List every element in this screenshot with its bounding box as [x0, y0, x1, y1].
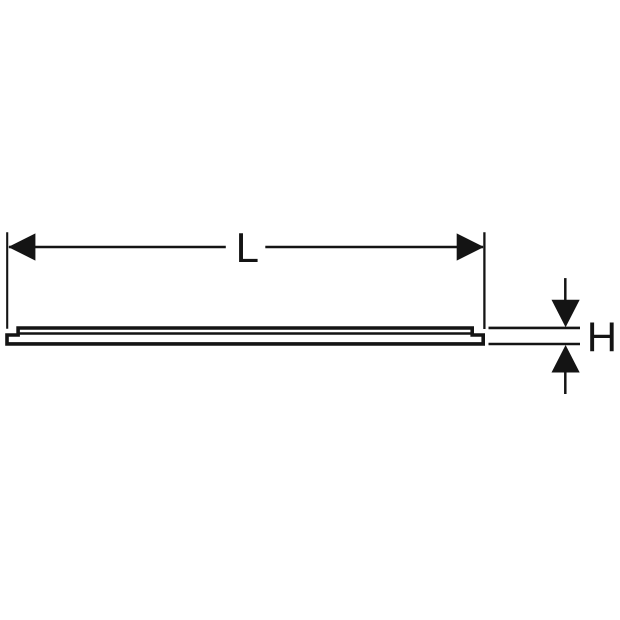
arrow stem top (H)	[564, 278, 567, 301]
profile inner line (underside of top plate)	[18, 332, 472, 334]
profile outer contour (shower surface side view)	[7, 328, 483, 344]
arrowhead top (H, pointing down)	[552, 300, 580, 328]
svg-text:H: H	[587, 313, 617, 360]
extension line top (H dimension)	[489, 327, 581, 330]
arrowhead left (L)	[8, 233, 35, 260]
extension line bottom (H dimension)	[489, 343, 581, 346]
dimension line L, right segment	[265, 246, 483, 249]
arrowhead bottom (H, pointing up)	[552, 345, 580, 373]
extension line right (L dimension)	[483, 232, 485, 329]
extension line left (L dimension)	[6, 232, 8, 329]
arrow stem bottom (H)	[564, 371, 567, 394]
dimension line L, left segment	[9, 246, 226, 249]
arrowhead right (L)	[457, 233, 484, 260]
svg-text:L: L	[236, 224, 259, 271]
